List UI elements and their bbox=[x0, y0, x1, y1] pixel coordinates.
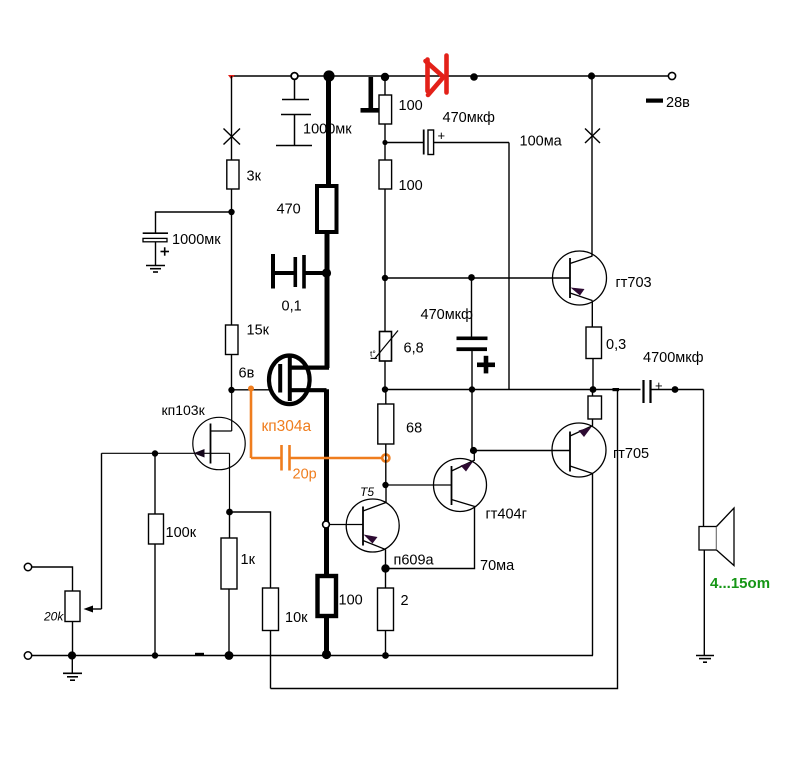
wire 100ма branch down bbox=[508, 143, 510, 390]
node open terminal rail right end bbox=[668, 72, 675, 79]
svg-text:100: 100 bbox=[399, 178, 423, 194]
wire гт703 emitter to 0,3 bbox=[591, 301, 593, 328]
wire input gate drop bbox=[101, 453, 103, 609]
node junction right of diode bbox=[470, 73, 478, 81]
resistor 3к bbox=[227, 160, 239, 189]
svg-text:3к: 3к bbox=[247, 169, 262, 185]
transistor гт705 bbox=[552, 423, 606, 477]
resistor 2 bbox=[385, 569, 387, 589]
wire pot top to input bbox=[32, 567, 73, 591]
arrow emitter гт404г bbox=[461, 462, 474, 472]
svg-text:4700мкф: 4700мкф bbox=[643, 350, 704, 366]
svg-text:+: + bbox=[438, 128, 446, 143]
svg-text:10к: 10к bbox=[285, 610, 308, 626]
wire to 1000мк bypass cap bbox=[156, 212, 232, 233]
svg-text:4...15om: 4...15om bbox=[710, 575, 770, 592]
potentiometer 20к bbox=[65, 591, 80, 622]
ground (left bypass) bbox=[146, 266, 165, 273]
svg-text:гт705: гт705 bbox=[613, 446, 649, 462]
resistor 470 (bold) bbox=[317, 186, 337, 232]
svg-text:100к: 100к bbox=[166, 525, 197, 541]
svg-text:п609а: п609а bbox=[394, 553, 435, 569]
wire top supply rail bbox=[232, 75, 673, 77]
svg-text:20p: 20p bbox=[293, 467, 317, 483]
node junction output/470мкф bbox=[469, 386, 475, 392]
wire node to 15к bbox=[231, 212, 233, 325]
svg-text:6в: 6в bbox=[239, 366, 255, 382]
resistor 68 bbox=[385, 390, 387, 405]
arrow emitter гт703 bbox=[571, 288, 585, 296]
node junction output/0,3 bbox=[590, 386, 597, 393]
resistor 100 (first) bbox=[379, 95, 392, 124]
capacitor 470мкф (middle, bold plates) bbox=[457, 278, 496, 390]
node junction 3к/15к bbox=[228, 209, 234, 215]
wire bottom rail bbox=[32, 655, 593, 657]
wire 15к to gate node bbox=[231, 355, 233, 391]
transistor гт703 bbox=[553, 251, 607, 305]
transistor кп304а (bold FET) bbox=[269, 355, 329, 405]
svg-text:470мкф: 470мкф bbox=[443, 110, 496, 126]
node junction 6,8 bottom bbox=[382, 386, 388, 392]
wire 3к to node bbox=[231, 189, 233, 212]
transistor гт404г bbox=[386, 451, 487, 512]
node junction at 470мкф mid bbox=[468, 274, 475, 281]
node junction speaker bbox=[672, 386, 679, 393]
bold wire 100 to bottom rail bbox=[324, 616, 329, 653]
wire orange gate tap bbox=[251, 389, 386, 471]
wire гт705 collector down to rail bbox=[592, 474, 594, 656]
wire driver node to гт705 base bbox=[474, 450, 571, 452]
resistor 0,3 bbox=[586, 327, 602, 359]
wire speaker to ground bbox=[703, 550, 705, 656]
resistor 1к bbox=[229, 512, 231, 538]
node open circle on bold wire (п609а base tap) bbox=[323, 521, 330, 528]
wire 100 down to 6,8 node bbox=[384, 189, 386, 278]
node big junction emitters bbox=[381, 564, 389, 572]
wire wiper arrow bbox=[86, 608, 102, 610]
svg-text:кп304а: кп304а bbox=[262, 418, 312, 435]
node orange open circle at 68 bbox=[382, 454, 389, 461]
arrow emitter п609а bbox=[364, 535, 378, 544]
resistor гт705 emitter (unlabeled) bbox=[592, 390, 594, 397]
svg-text:6,8: 6,8 bbox=[404, 341, 424, 357]
diode VD1 (red marker) bbox=[426, 56, 447, 96]
node input terminal (bottom) bbox=[24, 652, 31, 659]
node gate junction 6в bbox=[228, 387, 234, 393]
svg-text:2: 2 bbox=[401, 593, 409, 609]
node feedback tap tick bbox=[613, 388, 620, 391]
wire output horizontal bbox=[385, 389, 641, 391]
transistor п609а bbox=[330, 499, 400, 552]
node junction above 100 resistor bbox=[381, 73, 389, 81]
resistor 10к bbox=[263, 588, 279, 631]
svg-text:20k: 20k bbox=[43, 610, 64, 624]
node junction 6,8 top bbox=[382, 275, 388, 281]
bold wire 470 to 0,1 node bbox=[325, 232, 330, 273]
speaker 4...15om bbox=[699, 508, 734, 566]
capacitor 470мкф (top) bbox=[385, 130, 509, 155]
svg-text:0,1: 0,1 bbox=[282, 299, 302, 315]
wire cap to ground bbox=[155, 242, 157, 266]
bold tee mark left of 100 bbox=[361, 77, 380, 113]
svg-text:гт404г: гт404г bbox=[486, 507, 527, 523]
arrow gate кп103к bbox=[194, 449, 205, 458]
wire left branch from rail bbox=[231, 76, 233, 160]
node junction 1к/rail bbox=[225, 651, 234, 660]
thermistor 6,8 bbox=[384, 278, 386, 332]
wire гт404г collector down bbox=[386, 507, 475, 569]
arrow emitter гт705 bbox=[579, 427, 592, 437]
wire source node to 10к bbox=[230, 512, 271, 588]
capacitor 1000мк (left) bbox=[143, 233, 169, 256]
node thick junction top of bold wire bbox=[323, 70, 334, 81]
node junction 68 bottom bbox=[382, 482, 388, 488]
svg-text:68: 68 bbox=[406, 421, 422, 437]
wire гт703 collector to rail bbox=[591, 76, 593, 256]
resistor 100 (bold, bottom) bbox=[318, 576, 337, 616]
wire speaker drop bbox=[703, 390, 705, 527]
node open terminal on rail bbox=[291, 73, 298, 80]
svg-text:28в: 28в bbox=[666, 95, 690, 111]
node junction кп103к source bbox=[226, 509, 233, 516]
node junction above гт703 bbox=[588, 72, 595, 79]
wire gate of кп304а bbox=[233, 389, 270, 391]
wire п609а emitter down bbox=[385, 550, 387, 569]
svg-text:+: + bbox=[655, 378, 663, 393]
label -28в bbox=[646, 95, 690, 111]
svg-text:100: 100 bbox=[339, 593, 363, 609]
svg-text:T5: T5 bbox=[360, 485, 374, 499]
node orange dot on gate wire bbox=[248, 386, 254, 392]
node junction 100к bbox=[152, 450, 158, 456]
node junction 2/rail bbox=[382, 652, 389, 659]
wire feedback bottom bbox=[271, 390, 618, 689]
capacitor 1000мк (top centre) bbox=[276, 80, 312, 146]
wire 10к to feedback line bbox=[270, 631, 272, 689]
node bold junction at 0,1 bbox=[322, 268, 331, 277]
wire pot bottom bbox=[72, 622, 74, 656]
bold wire from rail to 470 bbox=[326, 76, 331, 186]
red tick at rail left end bbox=[228, 75, 235, 79]
node tick on rail bbox=[195, 653, 204, 656]
resistor 15к bbox=[226, 325, 239, 355]
node junction 100к/rail bbox=[152, 652, 158, 658]
svg-text:100: 100 bbox=[399, 98, 423, 114]
bold wire 0,1 node to FET drain bbox=[325, 273, 330, 368]
node junction pot/rail bbox=[68, 651, 76, 659]
svg-text:1к: 1к bbox=[241, 552, 256, 568]
wire п609а collector up bbox=[385, 485, 387, 503]
node input terminal (top) bbox=[24, 563, 31, 570]
capacitor 4700мкф bbox=[644, 380, 651, 403]
ground (main) bbox=[63, 673, 82, 680]
svg-text:470: 470 bbox=[277, 202, 301, 218]
svg-text:100ма: 100ма bbox=[520, 134, 563, 150]
wire between 100s bbox=[384, 124, 386, 160]
svg-text:t°: t° bbox=[370, 349, 376, 359]
svg-text:15к: 15к bbox=[247, 323, 270, 339]
fuse X mark on гт703 collector bbox=[585, 129, 600, 144]
svg-text:гт703: гт703 bbox=[616, 275, 652, 291]
svg-text:470мкф: 470мкф bbox=[421, 307, 474, 323]
svg-text:1000мк: 1000мк bbox=[172, 232, 221, 248]
node junction at 470мкф tap bbox=[382, 140, 387, 145]
ground (speaker) bbox=[696, 656, 714, 663]
node bold junction on bottom rail bbox=[322, 650, 331, 659]
wire mid horizontal to гт703 base bbox=[385, 277, 570, 279]
resistor 100 (second) bbox=[379, 160, 392, 189]
svg-text:70ма: 70ма bbox=[480, 558, 515, 574]
capacitor 0,1 bbox=[273, 254, 327, 289]
svg-text:кп103к: кп103к bbox=[162, 402, 206, 418]
wire rail to 100 (top right) bbox=[384, 77, 386, 95]
node junction driver bbox=[470, 447, 477, 454]
svg-text:0,3: 0,3 bbox=[606, 337, 626, 353]
bold wire FET source down to 100 bbox=[324, 389, 329, 576]
resistor 100к bbox=[154, 454, 156, 515]
wire cap to speaker node bbox=[651, 389, 704, 391]
fuse X mark on left wire bbox=[224, 129, 241, 145]
transistor кп103к bbox=[102, 390, 246, 512]
wire 470мкф node down to driver node bbox=[471, 390, 473, 451]
